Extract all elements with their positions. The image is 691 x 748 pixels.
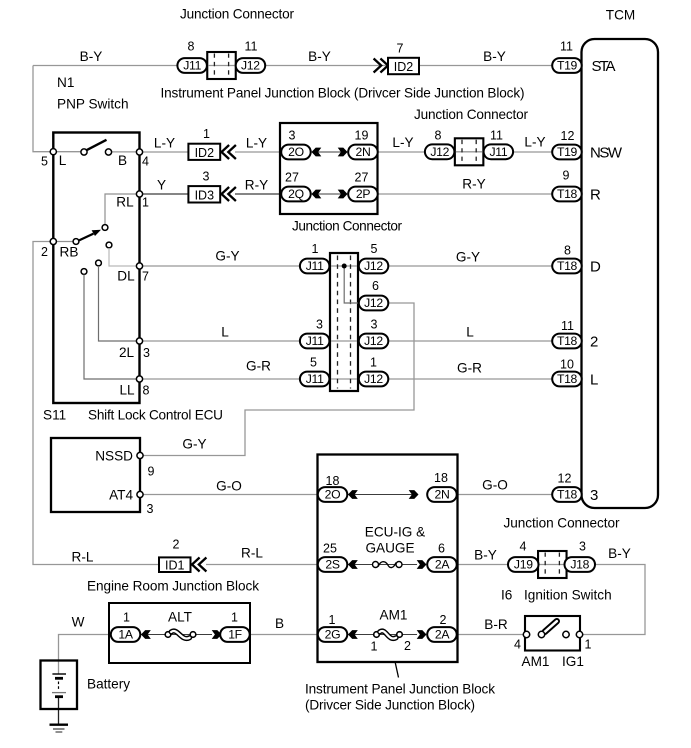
terminal label 3 [590,487,598,504]
label L contact [59,153,67,168]
wire label G-Y 1 [215,249,239,264]
switch lever L-B [87,140,107,150]
wire label B-R [484,617,508,632]
svg-text:G-R: G-R [246,359,271,374]
pin number 19 above 2N [355,129,369,143]
label AM1 fuse [380,608,408,623]
svg-text:I6: I6 [501,588,512,603]
connector chevrons after ID1 [192,558,206,572]
svg-text:6: 6 [438,542,445,556]
svg-text:4: 4 [514,638,521,652]
pill T18 pin 10 L [552,372,582,387]
wire label R-L 2 [241,546,263,561]
svg-text:1: 1 [123,611,130,625]
svg-text:1: 1 [312,242,319,256]
terminal label L [590,371,598,388]
svg-text:(Drivcer Side Junction Block): (Drivcer Side Junction Block) [305,697,475,712]
svg-text:2L: 2L [119,345,135,360]
svg-text:Ignition Switch: Ignition Switch [524,588,612,603]
contact circle RL [102,225,108,231]
wire B-Y J18 right and down to ignition switch IG1 pin [580,565,645,635]
wire G-Y J12 to TCM T18 D [386,265,553,267]
label NSSD [95,449,133,464]
pill J11 pin 5 G-R row [300,372,330,387]
relay block ID2 [188,144,220,160]
wire battery negative to ground [58,697,60,725]
svg-text:W: W [72,615,85,630]
svg-text:T19: T19 [557,145,578,159]
label ECU-IG & GAUGE [365,525,425,556]
svg-text:J12: J12 [364,259,383,273]
wire thin between arrows 2O-2N [311,151,348,153]
svg-text:18: 18 [326,474,340,488]
terminal label STA [592,58,616,75]
junction dot node [342,264,347,269]
pill J11 pin 3 L row [300,334,330,349]
pill J12 pin 6 [359,296,389,311]
pill 2O pin 18 [318,487,348,502]
svg-text:2: 2 [590,333,598,350]
svg-text:27: 27 [355,171,369,185]
svg-text:PNP Switch: PNP Switch [57,97,129,112]
label IG1 terminal [562,654,584,669]
svg-text:2O: 2O [325,488,341,502]
svg-text:2: 2 [404,639,411,653]
svg-text:NSSD: NSSD [95,449,133,464]
wire label L 1 [221,325,229,340]
pill J11 pin 11 NSW row [484,144,513,159]
svg-text:5: 5 [310,356,317,370]
svg-text:3: 3 [143,346,150,360]
contact circle LL [81,269,87,275]
svg-text:4: 4 [142,155,149,169]
svg-text:G-Y: G-Y [215,249,239,264]
svg-text:B-Y: B-Y [80,49,103,64]
pin number 27 above 2P [355,171,369,185]
svg-text:2A: 2A [435,628,450,642]
svg-text:1: 1 [203,127,210,141]
label pin 7 [142,270,149,284]
pin number 1 above 2G [329,613,336,627]
battery cell plates [52,674,66,697]
fuse ALT [165,631,196,639]
wire from dot down to J12 pin 6 [344,266,360,303]
wire label G-R 1 [246,359,271,374]
pill J11 pin 1 D row [300,259,330,274]
wire G-O 2N to TCM T18 3 [456,494,553,496]
wire L-Y 2N to J12 [377,151,427,153]
wire internal contact to pin4 [109,151,140,153]
connector chevrons after ID3 [222,187,236,201]
wire label R-Y 1 [245,178,268,193]
svg-text:3: 3 [147,502,154,516]
pin number 8 above J12 [435,129,442,143]
svg-text:1A: 1A [118,628,133,642]
wire label R-Y 2 [462,177,485,192]
pin number 3 above J18 [579,540,586,554]
arrow right to 2N [338,148,348,157]
pin 5 of PNP switch [50,149,56,155]
wire B-Y 2A to J19 [456,564,509,566]
wire G-R PNP pin8 to J11 [140,378,302,380]
ground symbol [50,725,69,732]
svg-text:T18: T18 [557,259,578,273]
svg-text:J18: J18 [570,558,589,572]
label AT4 [109,488,133,503]
svg-text:ID2: ID2 [195,146,215,160]
wire L-Y through junction connector to J11 [453,151,485,153]
svg-text:2A: 2A [435,558,450,572]
svg-text:4: 4 [520,540,527,554]
arrow left of 2Q [312,190,322,199]
svg-text:R-Y: R-Y [245,178,268,193]
svg-text:10: 10 [560,358,574,372]
svg-text:1: 1 [231,611,238,625]
label instrument panel junction block top [161,86,525,101]
contact circle RB arm pivot [73,239,79,245]
svg-text:R: R [590,186,601,203]
wire label G-R 2 [457,361,482,376]
pin number 7 above ID2 [397,42,404,56]
svg-text:J12: J12 [364,334,383,348]
wire label B-Y left [80,49,103,64]
svg-text:ID2: ID2 [394,60,414,74]
svg-text:Engine Room Junction Block: Engine Room Junction Block [87,579,259,594]
pin number 1 above 1A [123,611,130,625]
pin number 1 above 1F [231,611,238,625]
pill T18 pin 12 3 [552,487,582,502]
pill T19 pin 12 NSW [552,145,582,160]
svg-text:B-R: B-R [484,617,508,632]
svg-text:Junction Connector: Junction Connector [504,516,620,531]
pin number 4 above J19 [520,540,527,554]
wire B-Y STA row (left vertical to TCM) [33,65,555,67]
label instrument panel junction block bottom [305,682,495,697]
ignition pin 1 IG1 [576,631,582,637]
arrow right to 1F [212,630,222,639]
svg-text:11: 11 [560,40,573,54]
junction connector box ignition [538,551,567,578]
wire internal RB pin2 to arm [53,241,76,243]
wire B-R 2A to ignition switch AM1 pin [456,634,526,636]
svg-text:19: 19 [355,129,369,143]
svg-text:3: 3 [590,487,598,504]
pin 8 of PNP switch [136,376,142,382]
svg-text:L-Y: L-Y [154,136,175,151]
wire G-R through vertical junction box [329,378,360,380]
pin number 5 above J12 D row [371,242,378,256]
terminal label D [590,258,601,275]
fuse AM1 [374,631,403,639]
wire from PNP pin 2 left and down to R-L row [33,242,160,565]
terminal label 2 [590,333,598,350]
svg-text:AM1: AM1 [380,608,408,623]
label battery [87,677,130,692]
pill 2Q pin 27 [281,187,311,202]
wire L-Y ID2 chevrons to 2O pill [235,151,282,153]
pin number 5 above J11 G-R row [310,356,317,370]
wire label L 2 [466,325,474,340]
fuse ECU-IG and GAUGE [373,562,403,568]
wire R-Y ID3 chevrons to 2Q pill [235,193,282,195]
pill 2A pin 2 [427,627,457,642]
ignition pin 4 AM1 [523,631,529,637]
pin number 11 above T18 2 [561,319,574,333]
label shift lock control ECU [88,408,223,423]
pin number 1 below AM1 fuse [371,640,378,654]
pin number 11 above J12 [245,40,258,54]
svg-text:T18: T18 [557,187,578,201]
svg-text:Junction Connector: Junction Connector [180,7,294,22]
pill T19 pin 11 STA [552,58,582,73]
relay block ID2 top [388,58,419,74]
label RB [60,245,79,260]
pill 2A pin 6 [427,557,457,572]
pill 2O pin 3 [281,145,311,160]
svg-text:5: 5 [371,242,378,256]
wire label L-Y 3 [392,135,413,150]
pin number 6 above 2A [438,542,445,556]
svg-text:T18: T18 [557,488,578,502]
svg-text:IG1: IG1 [562,654,584,669]
svg-text:G-O: G-O [216,479,242,494]
svg-text:Y: Y [157,178,166,193]
svg-text:LL: LL [119,383,135,398]
svg-text:ECU-IG &: ECU-IG & [365,525,425,540]
svg-text:Junction Connector: Junction Connector [292,219,402,234]
wire thin 2G fuse row [346,634,417,636]
svg-text:8: 8 [564,244,571,258]
wire thin ALT fuse row [139,634,212,636]
relay block ID3 [188,186,220,202]
PNP switch S11 box [53,133,139,404]
wire L-Y J11 to TCM T19 NSW [512,151,553,153]
wire label G-Y NSSD [182,437,206,452]
svg-text:J12: J12 [364,296,383,310]
svg-text:7: 7 [397,42,404,56]
svg-text:ALT: ALT [168,610,192,625]
svg-text:G-Y: G-Y [182,437,206,452]
svg-text:2N: 2N [356,145,371,159]
svg-text:2N: 2N [435,488,450,502]
pin number 27 above 2Q [285,171,299,185]
wire W battery to 1A pill [59,635,113,675]
svg-text:Shift Lock Control ECU: Shift Lock Control ECU [88,408,223,423]
svg-text:12: 12 [558,472,572,486]
pin number 11 above T19 STA [560,40,573,54]
svg-text:J11: J11 [306,372,324,386]
svg-text:D: D [590,258,601,275]
svg-text:G-O: G-O [482,478,508,493]
pin number 4 label [514,638,521,652]
svg-text:1: 1 [370,356,377,370]
relay block ID1 [159,557,191,572]
pin number 18 above 2O [326,474,340,488]
ignition switch lever [545,621,557,632]
wire label B [275,616,284,631]
wire label L-Y 1 [154,136,175,151]
svg-text:T18: T18 [557,334,578,348]
svg-text:B-Y: B-Y [483,49,506,64]
pin 4 of PNP switch [136,149,142,155]
pin number 3 above J11 L row [316,318,323,332]
pill 2N pin 18 [427,487,457,502]
wire label G-Y 2 [456,250,480,265]
svg-text:2G: 2G [325,628,341,642]
svg-text:J12: J12 [241,59,260,73]
svg-text:2S: 2S [325,558,339,572]
pin number 3 above J12 L row [371,318,378,332]
wire internal LL contact down to pin8 [84,275,140,380]
svg-text:Instrument Panel Junction Bloc: Instrument Panel Junction Block [305,682,495,697]
label DL [117,269,135,284]
label pin 3 [143,346,150,360]
arrow right to 2A [417,560,427,569]
pin number 8 above J11 [188,40,195,54]
pill J12 pin 3 L row [359,334,389,349]
svg-text:AM1: AM1 [522,654,550,669]
TCM box [582,39,659,508]
svg-text:B: B [118,153,127,168]
title junction connector bottom right [504,516,620,531]
pin number 25 above 2S [323,542,337,556]
pill T18 pin 8 D [552,259,582,274]
svg-text:L: L [221,325,229,340]
svg-text:S11: S11 [43,408,66,423]
pill J12 pin 1 G-R row [359,372,389,387]
junction connector box NSW [455,138,484,165]
svg-text:11: 11 [561,319,574,333]
svg-text:3: 3 [316,318,323,332]
label engine room junction block [87,579,259,594]
svg-text:STA: STA [592,58,616,75]
svg-text:3: 3 [371,318,378,332]
svg-text:J12: J12 [430,145,449,159]
wire label Y [157,178,166,193]
label 2L [119,345,135,360]
svg-text:7: 7 [142,270,149,284]
arrow left of 2O [312,148,322,157]
svg-text:R-Y: R-Y [462,177,485,192]
pin number 9 below NSSD [148,465,155,479]
title junction connector mid [292,219,402,234]
svg-text:3: 3 [203,170,210,184]
title junction connector top [180,7,294,22]
svg-text:27: 27 [285,171,299,185]
wire B 1F to 2G [249,634,320,636]
label ignition switch [524,588,612,603]
pill J12 pin 5 D row [359,259,389,274]
label N1 [57,75,74,90]
svg-text:Junction Connector: Junction Connector [414,107,528,122]
pin 3 of PNP switch [136,338,142,344]
label AM1 terminal [522,654,550,669]
pin number 3 below AT4 [147,502,154,516]
pin number 18 above 2N [434,471,448,485]
pill T18 pin 9 R [552,187,582,202]
svg-text:1: 1 [585,638,592,652]
wire R-L from ID1 chevrons to 2S pill [206,564,320,566]
svg-text:2: 2 [440,613,447,627]
wire label B-Y right [483,49,506,64]
label pin 2 [41,245,48,259]
pill J11 pin 8 STA row [177,58,207,73]
pill 1F pin 1 [220,627,250,642]
arrow right to 2P [338,190,348,199]
wire L-Y PNP pin4 to ID2 [140,151,190,153]
wire label G-O 2 [482,478,508,493]
svg-text:T19: T19 [557,59,578,73]
svg-text:T18: T18 [557,372,578,386]
svg-text:1: 1 [142,196,149,210]
svg-text:L-Y: L-Y [392,135,413,150]
wire label B-Y ign 1 [474,548,497,563]
contact circle L [81,149,87,155]
wire L PNP pin3 to J11 [140,340,302,342]
connector chevrons after ID2 [222,145,236,159]
pill 2G pin 1 [318,627,348,642]
pin number 12 above T18 3 [558,472,572,486]
pin number 2 below AM1 fuse [404,639,411,653]
svg-text:B-Y: B-Y [474,548,497,563]
label I6 [501,588,512,603]
svg-text:L-Y: L-Y [246,136,267,151]
svg-text:TCM: TCM [606,8,635,23]
label pin 4 [142,155,149,169]
arrow left of 2G [348,630,358,639]
label ALT [168,610,192,625]
svg-text:2P: 2P [356,187,370,201]
svg-text:12: 12 [561,129,575,143]
pill J12 pin 11 STA row [236,58,266,73]
leader line to label [395,662,399,678]
label pin 5 [41,155,48,169]
svg-text:2: 2 [173,538,180,552]
battery box [41,661,78,710]
wire Y PNP pin1 to ID3 [140,193,190,195]
junction connector box top [207,52,236,79]
svg-text:9: 9 [148,465,155,479]
wire label G-O 1 [216,479,242,494]
shift lock control ECU box [51,438,140,512]
wire internal RL: pin1 left then down to contact [105,194,140,225]
svg-text:J12: J12 [364,372,383,386]
svg-text:1: 1 [371,640,378,654]
arrow left of 2S [348,560,358,569]
wire G-R J12 to TCM T18 L [386,378,553,380]
pill 2S pin 25 [318,557,348,572]
svg-text:AT4: AT4 [109,488,133,503]
junction connector block box [280,123,378,214]
pill 2P pin 27 [348,187,378,202]
svg-text:25: 25 [323,542,337,556]
pill J19 pin 4 [508,557,539,572]
wire label R-L 1 [72,550,94,565]
wire internal pin5 to contact [53,151,84,153]
pin number 9 above T18 R [563,169,570,183]
wire G-O AT4 to 2O pill [140,494,321,496]
wire R-Y 2P to TCM T18 R [377,193,553,195]
label pin 1 [142,196,149,210]
wire G-Y PNP pin7 to J11 [140,265,302,267]
pin number 8 above T18 D [564,244,571,258]
svg-text:L-Y: L-Y [524,135,545,150]
wire label W [72,615,85,630]
label pin 8 [143,384,150,398]
arrow left of 1A [141,630,151,639]
svg-text:N1: N1 [57,75,74,90]
svg-text:Instrument Panel Junction Bloc: Instrument Panel Junction Block (Drivcer… [161,86,525,101]
